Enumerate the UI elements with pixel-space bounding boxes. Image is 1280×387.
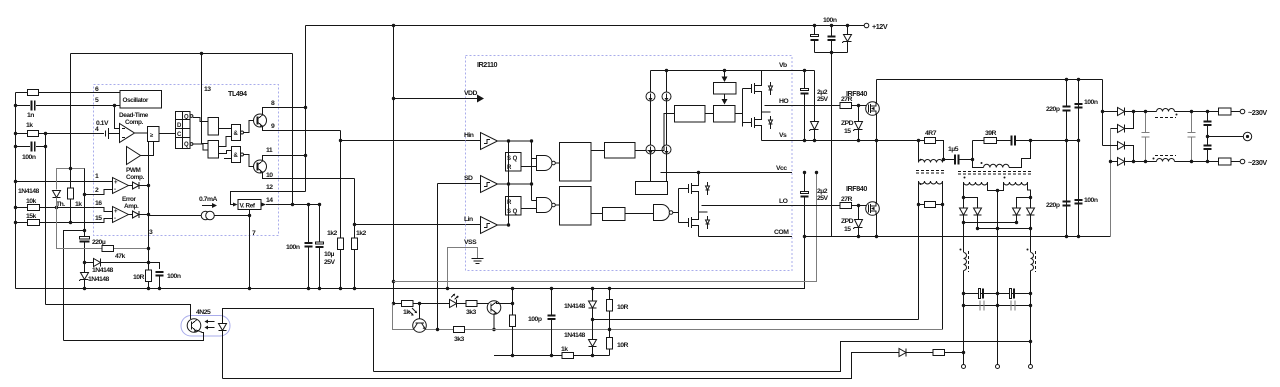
level shift bottom box xyxy=(636,182,668,195)
pin 5 wire with capacitor CT xyxy=(16,105,31,107)
node dots left bus xyxy=(14,104,17,224)
1u5 coupling cap xyxy=(948,146,959,165)
svg-text:100p: 100p xyxy=(528,316,542,323)
wire pin11 feedback top xyxy=(71,53,293,55)
bootstrap cap 2u2 25V xyxy=(804,71,806,89)
svg-text:3k3: 3k3 xyxy=(454,336,465,343)
diode 1N4148 vertical xyxy=(53,191,61,210)
svg-text:15k: 15k xyxy=(26,213,37,220)
ls mosfet N xyxy=(679,212,710,232)
dc filter wire lower xyxy=(964,305,1031,307)
pin 2 wire xyxy=(85,190,113,195)
feed column upper xyxy=(1102,80,1104,146)
svg-text:D: D xyxy=(177,123,182,129)
indicator LED xyxy=(393,304,414,330)
vertical inductor A xyxy=(960,249,969,273)
nand 2 xyxy=(537,198,556,213)
comparator OR box xyxy=(148,127,160,142)
UV detect arrow chain xyxy=(724,71,726,80)
small box lower xyxy=(603,208,626,221)
220p lower xyxy=(1046,201,1071,210)
svg-text:ZPD: ZPD xyxy=(841,218,854,225)
svg-text:VDD: VDD xyxy=(464,90,477,97)
svg-text:Hin: Hin xyxy=(464,132,474,139)
svg-text:100n: 100n xyxy=(167,273,181,280)
svg-text:1k2: 1k2 xyxy=(327,230,338,237)
pin 12 supply wire xyxy=(231,192,306,205)
vref column to top wire xyxy=(292,54,294,205)
hs totem connections xyxy=(761,71,763,80)
gate feedback wire upper xyxy=(593,319,919,321)
secondary A xyxy=(964,182,988,185)
transistor sense driver xyxy=(487,301,501,315)
logic and boxes xyxy=(208,118,219,159)
diode EA1 xyxy=(133,182,140,189)
level shift top box xyxy=(605,143,636,159)
dc filter cap 1 xyxy=(979,289,984,299)
pin 1 wire xyxy=(16,181,113,183)
secondary leads xyxy=(963,182,965,198)
svg-text:COM: COM xyxy=(774,229,789,236)
pin 4 wire with resistor 1k xyxy=(16,133,29,135)
0.7mA current source xyxy=(199,196,217,208)
latch 2 xyxy=(506,197,522,216)
secondary B xyxy=(1004,182,1028,185)
svg-text:10µ: 10µ xyxy=(324,251,335,258)
svg-text:25V: 25V xyxy=(817,96,829,103)
lower output line xyxy=(1134,161,1157,163)
X cap column 2 xyxy=(1191,112,1193,133)
svg-text:Th.: Th. xyxy=(56,201,65,208)
ls mosfet P xyxy=(679,180,710,199)
dc filter cap 3 xyxy=(980,301,984,311)
nand 3 low side xyxy=(654,205,673,221)
thermistor Th. 1k xyxy=(70,54,72,189)
svg-text:16: 16 xyxy=(95,200,102,207)
svg-text:14: 14 xyxy=(266,197,273,204)
output diode O2 xyxy=(1111,128,1118,130)
pin 14 vref wire xyxy=(266,204,320,206)
SD column xyxy=(437,184,439,330)
IR2110 dashed box xyxy=(466,56,793,271)
svg-text:Vs: Vs xyxy=(779,132,787,139)
Vs midpoint rail xyxy=(792,140,919,142)
dc filter cap 4 xyxy=(1011,301,1015,311)
opto LED anode wire xyxy=(223,309,374,372)
pin 13 column xyxy=(202,54,208,144)
svg-text:IR2110: IR2110 xyxy=(477,60,498,69)
HO gate resistor 27R xyxy=(792,105,840,107)
vertical inductor B xyxy=(1030,229,1032,253)
10R column x2 xyxy=(609,289,611,300)
svg-text:100n: 100n xyxy=(823,17,837,24)
svg-text:10k: 10k xyxy=(26,198,37,205)
VDD supply column xyxy=(393,26,395,304)
upper drain rail xyxy=(877,79,1103,81)
svg-text:Comp.: Comp. xyxy=(126,174,145,181)
current source 1 xyxy=(650,71,652,93)
svg-text:V. Ref: V. Ref xyxy=(240,203,256,210)
feedback column to optocoupler xyxy=(45,134,47,305)
error amplifier 1 xyxy=(113,178,129,194)
ground rail bottom xyxy=(16,237,805,289)
dc filter cap 2 xyxy=(1010,289,1015,299)
center tap column dots xyxy=(996,292,999,295)
svg-text:1k: 1k xyxy=(75,201,82,208)
latch 1 xyxy=(506,153,522,172)
upper output line xyxy=(1134,111,1157,113)
4N25 LED xyxy=(219,324,227,331)
svg-text:Comp.: Comp. xyxy=(125,119,144,126)
sense wire lower gray xyxy=(413,329,943,331)
100n upper xyxy=(1075,99,1098,108)
X cap column 1 xyxy=(1145,112,1147,133)
+12V terminal xyxy=(864,22,888,31)
svg-text:1k: 1k xyxy=(403,309,410,316)
error amplifier 2 xyxy=(113,207,129,223)
svg-text:39R: 39R xyxy=(985,130,997,137)
svg-text:25V: 25V xyxy=(817,195,829,202)
svg-text:2µ2: 2µ2 xyxy=(817,89,828,96)
gate zener ZPD15 upper xyxy=(858,106,860,122)
1k2 pulldown A xyxy=(340,141,342,239)
earth wire to PE terminal xyxy=(1208,136,1244,138)
220p upper xyxy=(1046,106,1071,114)
svg-text:27R: 27R xyxy=(841,196,853,203)
svg-text:1N4148: 1N4148 xyxy=(564,303,586,310)
svg-text:+: + xyxy=(114,180,118,186)
divider resistor column xyxy=(512,289,514,304)
resistor 1k xyxy=(28,131,39,137)
svg-text:Lin: Lin xyxy=(464,216,473,223)
Vb wire outside + bootstrap xyxy=(814,71,816,122)
svg-text:4N25: 4N25 xyxy=(196,309,211,316)
svg-text:Vcc: Vcc xyxy=(776,165,787,172)
pin9 to Hin wire xyxy=(340,131,342,141)
high side driver mosfets xyxy=(742,89,744,127)
filter inductor lower xyxy=(1153,156,1177,162)
dc filter wire upper xyxy=(964,293,1031,295)
svg-text:1N4148: 1N4148 xyxy=(92,267,114,274)
svg-text:13: 13 xyxy=(204,86,211,93)
high side top rail xyxy=(651,70,765,72)
long feedback rail A xyxy=(374,342,1031,372)
svg-text:3k3: 3k3 xyxy=(466,309,477,316)
rectifier diode A2 xyxy=(964,198,978,208)
optocoupler 4N25 xyxy=(181,309,230,336)
rectifier diode B2 xyxy=(1030,198,1032,208)
Y caps column xyxy=(1207,112,1209,122)
vref decoupling 10u 25V xyxy=(319,205,321,243)
220u capacitor column xyxy=(84,169,86,238)
svg-text:1N4148: 1N4148 xyxy=(88,276,110,283)
svg-text:Dead-Time: Dead-Time xyxy=(119,112,149,119)
fuse lower xyxy=(1219,158,1232,165)
svg-text:1n: 1n xyxy=(27,112,34,119)
12V filter: electrolytic cap xyxy=(814,26,816,35)
47k wire xyxy=(57,198,103,249)
resistor 1k drive xyxy=(402,301,414,307)
svg-text:0.7mA: 0.7mA xyxy=(199,196,217,203)
output diode O1 xyxy=(1103,111,1118,113)
VDD input arrow xyxy=(394,98,478,100)
pin10 to Lin wire xyxy=(354,179,356,225)
svg-text:10R: 10R xyxy=(617,304,629,311)
svg-text:R: R xyxy=(507,200,512,206)
hs mosfet P xyxy=(743,80,773,99)
nand 1 xyxy=(537,156,556,171)
rectifier diode A1 xyxy=(963,198,965,208)
snubber diode column 1N4148 x2 xyxy=(592,289,594,301)
svg-text:IRF840: IRF840 xyxy=(846,89,867,98)
svg-text:~230V: ~230V xyxy=(1248,108,1267,117)
svg-text:&: & xyxy=(234,131,239,137)
current source 2 xyxy=(666,71,668,93)
gate zener ZPD15 lower xyxy=(858,206,860,220)
svg-text:+: + xyxy=(114,209,118,215)
svg-text:220µ: 220µ xyxy=(92,239,106,246)
svg-text:1µ5: 1µ5 xyxy=(948,146,959,153)
gate drive transformer xyxy=(916,141,945,330)
svg-text:0.1V: 0.1V xyxy=(96,120,109,127)
svg-text:Q: Q xyxy=(184,142,189,148)
output transistor Q2 xyxy=(244,155,255,167)
dc bus caps 220p/100n columns xyxy=(1066,80,1068,237)
pulse filter box 2 xyxy=(560,187,592,226)
svg-text:Q: Q xyxy=(184,115,189,121)
diode EA2 xyxy=(133,211,140,218)
svg-text:47k: 47k xyxy=(115,253,126,260)
diode bottom wires xyxy=(964,222,1017,224)
zener 1N4148 vertical xyxy=(79,273,110,284)
left ground bus xyxy=(15,93,17,289)
filter bottom wire xyxy=(815,52,848,54)
svg-text:-: - xyxy=(114,216,116,222)
svg-text:LO: LO xyxy=(779,198,788,205)
rectifier diode B1 xyxy=(1017,198,1031,208)
capacitor 100n soft start xyxy=(16,146,31,148)
current source 4 xyxy=(662,145,671,154)
delay box left xyxy=(675,106,706,123)
snubber 39R + cap xyxy=(972,141,974,160)
output transistor Q1 xyxy=(244,121,255,133)
resistor 3k3 upper xyxy=(466,301,477,307)
lower 2u2 25V cap xyxy=(804,173,806,192)
opto collector wire to TL494 xyxy=(46,305,191,320)
svg-text:TL494: TL494 xyxy=(228,89,247,98)
oscillator box xyxy=(120,91,162,109)
output terminals xyxy=(962,365,1033,369)
svg-text:10R: 10R xyxy=(617,342,629,349)
filter inductor upper xyxy=(1155,109,1178,118)
svg-text:10R: 10R xyxy=(133,274,145,281)
capacitor 1n xyxy=(27,101,35,120)
supply wire 12V to sense xyxy=(393,303,513,305)
IRF840 lower mosfet xyxy=(866,202,880,216)
svg-text:100n: 100n xyxy=(1084,99,1098,106)
damping resistor secondary xyxy=(919,204,943,206)
svg-text:R: R xyxy=(507,165,512,171)
low side mosfet driver pair xyxy=(678,189,680,223)
feed column lower xyxy=(1110,129,1112,237)
svg-text:C: C xyxy=(177,132,182,138)
pulse filter box 1 xyxy=(560,143,592,182)
0.1V offset battery xyxy=(96,120,119,139)
svg-text:100n: 100n xyxy=(286,244,300,251)
diode 1N4148 horizontal xyxy=(85,262,94,264)
output diode O3 xyxy=(1103,145,1118,147)
bottom sense rail with 1k xyxy=(494,355,562,357)
svg-text:100n: 100n xyxy=(22,154,36,161)
svg-text:PWM: PWM xyxy=(126,167,140,174)
svg-text:HO: HO xyxy=(779,98,788,105)
svg-text:VSS: VSS xyxy=(464,239,477,246)
svg-text:1N4148: 1N4148 xyxy=(564,332,586,339)
series resistor bottom xyxy=(933,350,945,356)
opto LED cathode wire xyxy=(222,331,224,379)
fuse upper xyxy=(1219,108,1232,115)
flip flop block xyxy=(176,112,193,149)
dead-time comparator xyxy=(119,112,149,143)
series diode bottom xyxy=(899,349,906,357)
pwm comparator xyxy=(126,147,145,182)
COM power rail xyxy=(805,236,1111,238)
svg-text:~230V: ~230V xyxy=(1248,158,1267,167)
100p cap column xyxy=(551,289,553,316)
svg-text:Amp.: Amp. xyxy=(124,203,139,210)
wire 220u top to col x63.8 xyxy=(64,231,85,341)
svg-text:+12V: +12V xyxy=(872,22,888,31)
svg-text:1k: 1k xyxy=(561,346,568,353)
bootstrap zener xyxy=(809,122,819,132)
svg-text:15: 15 xyxy=(844,128,851,135)
resistor RT xyxy=(28,90,39,96)
pin 16 wire with 10k xyxy=(16,208,113,212)
vref hat wire xyxy=(57,169,85,195)
svg-text:15: 15 xyxy=(95,215,102,222)
svg-text:&: & xyxy=(234,153,239,159)
pin 15 wire with 15k xyxy=(16,219,113,223)
long feedback rail B xyxy=(223,353,899,379)
resistor 10R vertical xyxy=(148,249,150,271)
capacitor 100n xyxy=(156,272,181,280)
latch feed column xyxy=(508,141,510,225)
100n lower xyxy=(1075,197,1098,204)
svg-text:1k2: 1k2 xyxy=(356,230,367,237)
pin 6 wire with timing resistor xyxy=(16,92,29,94)
svg-text:220p: 220p xyxy=(1046,202,1060,209)
main transformer xyxy=(958,141,1032,366)
svg-text:15: 15 xyxy=(844,226,851,233)
ground symbol xyxy=(472,259,484,264)
1k2 pulldown B xyxy=(354,225,356,239)
4R7 series resistor xyxy=(919,140,925,142)
svg-text:Error: Error xyxy=(122,196,137,203)
feedback column pin3 xyxy=(148,142,150,249)
svg-text:10: 10 xyxy=(266,172,273,179)
svg-text:220p: 220p xyxy=(1046,106,1060,113)
svg-text:100n: 100n xyxy=(1084,197,1098,204)
svg-text:IRF840: IRF840 xyxy=(846,184,867,193)
+12V top rail xyxy=(306,25,865,27)
phototransistor sense xyxy=(419,304,421,320)
TL494 dashed box xyxy=(94,85,279,236)
current source 3 xyxy=(646,145,655,154)
svg-text:1N4148: 1N4148 xyxy=(18,188,40,195)
svg-text:4R7: 4R7 xyxy=(925,130,937,137)
svg-text:Vb: Vb xyxy=(779,62,787,69)
39R node wire to caps xyxy=(1031,140,1079,142)
svg-text:1k: 1k xyxy=(26,122,33,129)
vref decoupling 100n xyxy=(308,205,310,243)
svg-text:Oscillator: Oscillator xyxy=(123,97,149,104)
output diode O4 xyxy=(1111,161,1118,163)
LO gate resistor 27R xyxy=(792,205,840,207)
svg-text:2µ2: 2µ2 xyxy=(817,188,828,195)
and gate 1 xyxy=(232,125,244,141)
resistor 3k3 lower xyxy=(454,327,465,333)
svg-text:25V: 25V xyxy=(324,259,336,266)
Vcc feed column xyxy=(394,173,817,282)
svg-text:ZPD: ZPD xyxy=(841,120,854,127)
opto emitter wire xyxy=(64,332,204,341)
output dc columns xyxy=(963,223,965,253)
resistor 47k xyxy=(102,246,114,252)
svg-text:11: 11 xyxy=(266,147,273,154)
IRF840 upper mosfet xyxy=(866,102,880,116)
and gate 2 xyxy=(232,147,244,163)
svg-text:SD: SD xyxy=(464,175,473,182)
V.Ref block xyxy=(233,200,266,210)
dtc output xyxy=(135,132,148,134)
12V filter: zener xyxy=(847,26,849,35)
svg-text:-: - xyxy=(114,187,116,193)
hs mosfet N xyxy=(743,112,773,132)
svg-text:12: 12 xyxy=(266,184,273,191)
pin 7 column xyxy=(249,210,251,289)
ls connections xyxy=(698,173,700,180)
